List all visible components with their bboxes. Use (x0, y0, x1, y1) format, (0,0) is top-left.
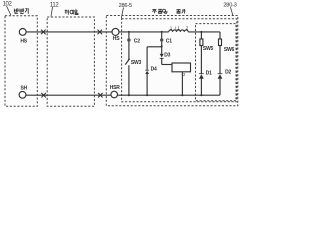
svg-text:D1: D1 (206, 71, 212, 77)
svg-text:286-5: 286-5 (119, 3, 132, 9)
svg-text:C2: C2 (134, 38, 140, 44)
svg-text:L1: L1 (175, 25, 180, 30)
svg-text:SW6: SW6 (224, 47, 235, 53)
svg-text:D2: D2 (225, 70, 231, 76)
svg-text:112: 112 (50, 2, 59, 8)
svg-text:D4: D4 (151, 66, 157, 72)
svg-text:1: 1 (170, 25, 173, 30)
svg-text:2: 2 (183, 72, 186, 77)
svg-text:2: 2 (186, 25, 189, 30)
svg-text:HSR: HSR (110, 85, 121, 91)
svg-text:D3: D3 (164, 52, 170, 58)
svg-text:SH: SH (21, 86, 28, 92)
svg-text:HS: HS (20, 39, 27, 45)
svg-text:SW5: SW5 (203, 46, 214, 52)
svg-text:C1: C1 (166, 38, 172, 44)
svg-text:HS: HS (113, 36, 120, 42)
svg-text:280-3: 280-3 (223, 3, 236, 9)
svg-text:102: 102 (3, 2, 13, 8)
svg-text:SW3: SW3 (131, 60, 142, 66)
